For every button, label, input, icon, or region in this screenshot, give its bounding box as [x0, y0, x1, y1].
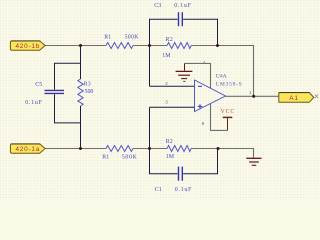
svg-text:R2: R2: [166, 139, 173, 145]
svg-text:0.1uF: 0.1uF: [174, 3, 191, 9]
svg-text:500: 500: [85, 89, 94, 95]
wire top main: R2 to feedback corner, down to output: [191, 46, 254, 97]
wire bottom loop left vertical (node C to C1, + input riser): [150, 107, 178, 174]
junction RC bridge bottom: [79, 147, 82, 150]
capacitor C5: [25, 82, 64, 106]
wire ground to pin 4: [185, 63, 211, 88]
svg-text:C5: C5: [35, 82, 42, 88]
wire top main: port to R1: [45, 45, 106, 47]
junction node D bottom (C1/ground): [217, 147, 220, 150]
ground symbol (bottom right): [246, 158, 261, 165]
junction RC bridge top: [79, 44, 82, 47]
wire output: op-amp to port A1: [226, 95, 279, 97]
wire inverting input (node A to op-amp minus): [150, 85, 195, 87]
wire feedback loop left vertical (node A to C3): [150, 19, 178, 86]
wire feedback loop right (C3 to node B): [183, 19, 217, 45]
wire bottom main: R1 to R2: [133, 148, 167, 150]
svg-text:VCC: VCC: [220, 109, 235, 115]
wire pin 8 to VCC: [211, 104, 228, 131]
wire RC bridge vertical lower: [80, 106, 82, 149]
svg-text:1M: 1M: [166, 154, 175, 160]
svg-text:U4A: U4A: [216, 74, 227, 80]
junction node B top (R2/C3/feedback): [216, 44, 219, 47]
svg-text:420-1b: 420-1b: [15, 43, 40, 50]
power VCC: [220, 109, 235, 130]
svg-text:C1: C1: [155, 187, 162, 193]
port A1: [279, 93, 314, 103]
svg-text:420-1a: 420-1a: [15, 146, 40, 153]
svg-text:500K: 500K: [125, 35, 140, 41]
ground symbol (op-amp pin 4): [176, 63, 193, 81]
svg-text:R1: R1: [104, 35, 111, 41]
svg-text:R1: R1: [102, 155, 109, 161]
port 420-1a: [10, 144, 45, 153]
wire bottom loop right (C1 to node D): [183, 149, 217, 174]
svg-text:R3: R3: [84, 82, 91, 88]
no-ERC marker at A1 tip: [315, 94, 318, 98]
svg-text:C3: C3: [154, 3, 161, 9]
svg-text:1M: 1M: [162, 53, 171, 59]
resistor R1 (bottom): [102, 146, 137, 161]
wire top main: R1 to R2: [133, 45, 167, 47]
junction output node: [252, 95, 255, 98]
resistor R1 (top): [104, 35, 139, 49]
svg-text:LM358-S: LM358-S: [216, 81, 243, 87]
port 420-1b: [10, 41, 45, 50]
wire bottom main: port to R1: [45, 148, 106, 150]
capacitor C1: [155, 167, 192, 193]
wire non-inverting input (node C to op-amp plus): [150, 106, 195, 108]
resistor R2 (bottom): [166, 139, 191, 160]
svg-text:A1: A1: [289, 95, 298, 102]
junction node A top (R1/R2/C3/-in): [148, 44, 151, 47]
wire capacitor C5 branch top: [55, 63, 81, 89]
junction node C bottom (+in riser): [148, 147, 151, 150]
svg-text:0.1uF: 0.1uF: [175, 187, 192, 193]
wire bottom main: R2 to ground: [191, 149, 254, 158]
svg-text:R2: R2: [166, 37, 174, 43]
wire RC bridge vertical upper: [80, 46, 82, 80]
capacitor C3: [154, 3, 191, 26]
resistor R3 (vertical): [78, 79, 94, 106]
svg-text:0.1uF: 0.1uF: [25, 100, 42, 106]
wire capacitor C5 branch bottom: [55, 94, 81, 123]
op-amp U4A LM358-S: [195, 74, 243, 112]
resistor R2 (top): [162, 37, 191, 59]
svg-text:500K: 500K: [122, 155, 138, 161]
